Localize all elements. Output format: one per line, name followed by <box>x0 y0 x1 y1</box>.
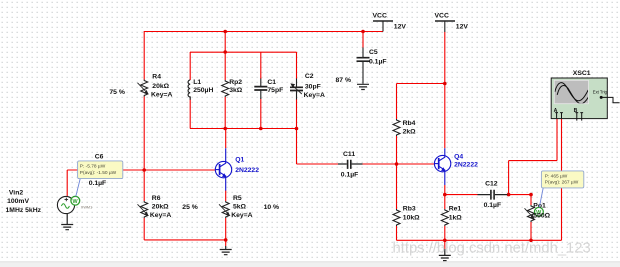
svg-text:Key=A: Key=A <box>304 92 325 99</box>
svg-text:Vin2: Vin2 <box>9 189 23 196</box>
probe W2 on Po1 <box>535 207 544 216</box>
inductor L1 250uH <box>188 80 190 100</box>
tooltip probe W1 power readout <box>76 161 123 197</box>
svg-text:C6: C6 <box>95 153 104 160</box>
tooltip probe W2 power readout <box>539 171 584 208</box>
arrowhead C2 <box>290 83 295 87</box>
wire tank to C11 row <box>296 129 298 165</box>
node Q4 emitter junction <box>443 193 447 197</box>
wire rail to tank top <box>224 32 226 53</box>
svg-text:100mV: 100mV <box>7 198 29 205</box>
wire stage2 ground rail <box>397 239 562 241</box>
wire C12 to Po1 <box>508 194 532 196</box>
svg-text:Re1: Re1 <box>449 206 462 213</box>
svg-text:75pF: 75pF <box>267 87 283 94</box>
arrowhead R5 <box>226 211 230 216</box>
node scope tap junction <box>507 193 511 197</box>
wire Po1 top lead <box>530 195 532 205</box>
svg-text:0.1µF: 0.1µF <box>484 202 502 209</box>
wire Rb4 top lead <box>396 84 398 120</box>
svg-text:20kΩ: 20kΩ <box>152 83 169 90</box>
transistor Q4 2N2222 <box>434 148 450 185</box>
capacitor C2 30pF variable <box>296 79 298 100</box>
wire stage1 ground rail <box>144 239 226 241</box>
svg-text:Rb4: Rb4 <box>403 120 416 127</box>
wire top rail VCC net <box>144 31 383 33</box>
svg-text:2N2222: 2N2222 <box>454 162 478 169</box>
svg-text:1kΩ: 1kΩ <box>449 215 463 222</box>
probe W1 on Vin2 <box>71 196 92 209</box>
wire Re1 ground stem <box>444 240 446 249</box>
svg-text:P: 465 µW: P: 465 µW <box>545 173 568 179</box>
node tank bottom right tee <box>295 127 299 131</box>
wire Rb3 bottom lead <box>396 226 398 240</box>
resistor Rb3 10k <box>393 209 400 226</box>
wire scope tap to output node <box>508 161 510 195</box>
power symbol VCC2 <box>435 20 455 22</box>
node tank bottom Rp2 tee <box>223 127 227 131</box>
node Po1 bottom junction <box>529 239 533 243</box>
wire L1 top lead <box>189 52 191 80</box>
capacitor C11 0.1uF <box>338 163 363 165</box>
wire Po1 bottom lead <box>530 222 532 240</box>
wire Rp2 top lead <box>224 52 226 80</box>
svg-text:500Ω: 500Ω <box>533 213 550 220</box>
resistor Rp2 3k <box>222 80 229 97</box>
node tank top tee <box>223 50 227 54</box>
wire C2 bottom lead <box>296 99 298 129</box>
wire R5 bottom lead <box>225 218 227 240</box>
node Rb4-Rb3 base tee <box>395 162 399 166</box>
wire Re1 bottom lead <box>444 226 446 240</box>
wire R5 ground stem <box>225 240 227 246</box>
wire tank top edge <box>190 51 297 53</box>
svg-text:10 %: 10 % <box>264 204 280 211</box>
wire scope A plus down <box>556 118 558 160</box>
power symbol VCC1 <box>373 20 393 22</box>
node rail-tank junction <box>223 30 227 34</box>
arrowhead R4 <box>144 90 148 95</box>
resistor R4 (potentiometer 20k) <box>141 80 148 97</box>
wire Rp2 bottom lead <box>224 97 226 129</box>
svg-text:20kΩ: 20kΩ <box>152 203 169 210</box>
svg-text:VCC: VCC <box>373 13 387 20</box>
node rail-C5 junction <box>361 30 365 34</box>
svg-text:10kΩ: 10kΩ <box>403 215 420 222</box>
bottom window strip <box>0 262 620 267</box>
node VCC2-Rb4 tee <box>443 82 447 86</box>
wire C1 top lead <box>260 52 262 79</box>
svg-text:Key=A: Key=A <box>150 212 171 219</box>
svg-text:https://blog.csdn.net/mdh_123: https://blog.csdn.net/mdh_123 <box>393 241 591 257</box>
svg-text:P(avg): 267 µW: P(avg): 267 µW <box>545 180 579 186</box>
svg-text:1MHz 5kHz: 1MHz 5kHz <box>6 207 42 214</box>
wire tank bottom edge <box>190 128 297 130</box>
wire C11 to Q4 base <box>363 163 436 165</box>
resistor R5 (potentiometer 5k) <box>222 201 229 218</box>
svg-text:XWM1: XWM1 <box>81 206 92 210</box>
resistor Rb4 2k <box>393 119 400 136</box>
svg-text:P: -5.78 µW: P: -5.78 µW <box>80 163 106 169</box>
wire C11 row left <box>297 163 339 165</box>
svg-text:3kΩ: 3kΩ <box>229 87 243 94</box>
wire Rb4 top horizontal <box>397 83 445 85</box>
wire scope A jog <box>509 160 557 162</box>
svg-text:2kΩ: 2kΩ <box>403 128 417 135</box>
svg-text:Q1: Q1 <box>235 157 244 164</box>
resistor Po1 (potentiometer 500) <box>528 205 535 222</box>
wire Vin2 to Q1 base <box>67 169 215 171</box>
node Re1 ground junction <box>443 239 447 243</box>
svg-text:250µH: 250µH <box>193 87 213 94</box>
capacitor C6 0.1uF (under tooltip) <box>90 169 110 171</box>
node base node R4-R6 <box>142 168 146 172</box>
wire VCC2 to Q4 collector <box>444 32 446 148</box>
wire Rb3 top lead <box>396 164 398 209</box>
ground below Re1 rail <box>439 249 451 261</box>
svg-text:87 %: 87 % <box>336 77 352 84</box>
wire rail to C5 <box>362 32 364 48</box>
svg-text:0.1µF: 0.1µF <box>369 58 387 65</box>
wire R6 top lead <box>143 170 145 201</box>
wire Q1 emitter to R5 <box>225 191 227 202</box>
capacitor C12 0.1uF <box>478 194 508 196</box>
wire Q4 emitter to C12 <box>445 194 478 196</box>
svg-text:Rb3: Rb3 <box>403 206 416 213</box>
svg-text:Key=A: Key=A <box>231 212 252 219</box>
wire Q1 collector to tank bottom <box>225 129 227 149</box>
wire R4 bottom to base node <box>143 97 145 171</box>
wire Re1 top lead <box>444 195 446 209</box>
oscilloscope XSC1 <box>551 78 619 121</box>
svg-text:C1: C1 <box>267 79 276 86</box>
svg-text:25 %: 25 % <box>182 204 198 211</box>
capacitor C1 75pF <box>260 79 262 100</box>
svg-text:2N2222: 2N2222 <box>235 167 259 174</box>
wire Vin2 vertical <box>66 170 68 197</box>
svg-text:0.1µF: 0.1µF <box>89 180 107 187</box>
node Po1 top junction <box>529 193 533 197</box>
node R5 ground junction <box>224 238 228 242</box>
wire Q4 emitter down <box>444 185 446 195</box>
svg-text:5kΩ: 5kΩ <box>233 203 247 210</box>
wire C1 bottom lead <box>260 99 262 129</box>
svg-text:R5: R5 <box>233 195 242 202</box>
svg-text:C12: C12 <box>485 181 498 188</box>
svg-text:P(avg): -1.50 µW: P(avg): -1.50 µW <box>80 170 117 176</box>
svg-text:XSC1: XSC1 <box>573 70 591 77</box>
svg-text:75 %: 75 % <box>109 89 125 96</box>
arrowhead Po1 <box>530 214 534 219</box>
arrowhead R6 <box>144 211 148 216</box>
svg-text:C11: C11 <box>343 151 355 158</box>
svg-text:VCC: VCC <box>435 13 449 20</box>
potentiometer arrowheads <box>144 83 534 218</box>
svg-text:30pF: 30pF <box>305 83 321 90</box>
svg-text:Q4: Q4 <box>454 154 463 161</box>
svg-text:C2: C2 <box>305 73 314 80</box>
svg-text:R4: R4 <box>152 74 161 81</box>
source Vin2 AM <box>57 196 74 213</box>
ground below R5 rail <box>220 246 232 255</box>
node tank bottom C1 tee <box>259 127 263 131</box>
capacitor C5 0.1uF <box>362 48 364 84</box>
resistor Re1 1k <box>441 209 448 226</box>
svg-text:C5: C5 <box>369 49 378 56</box>
svg-text:12V: 12V <box>394 24 407 31</box>
svg-text:L1: L1 <box>193 79 201 86</box>
wire scope A minus to ground rail <box>561 118 563 240</box>
wire L1 bottom lead <box>189 100 191 129</box>
svg-text:R6: R6 <box>152 195 161 202</box>
svg-text:Key=A: Key=A <box>151 92 172 99</box>
transistor Q1 2N2222 <box>215 148 231 190</box>
svg-text:Rp2: Rp2 <box>229 79 242 86</box>
wire R6 bottom lead <box>143 218 145 240</box>
svg-text:Ext Trig: Ext Trig <box>593 90 608 95</box>
wire Rb4 bottom lead <box>396 136 398 164</box>
ground below Vin2 <box>61 214 73 230</box>
resistor R6 (potentiometer 20k) <box>141 201 148 218</box>
wire C2 top lead <box>296 52 298 79</box>
ground below C5 <box>357 84 369 89</box>
svg-text:0.1µF: 0.1µF <box>341 172 359 179</box>
wire rail to R4 top <box>143 31 145 80</box>
svg-text:12V: 12V <box>456 24 469 31</box>
